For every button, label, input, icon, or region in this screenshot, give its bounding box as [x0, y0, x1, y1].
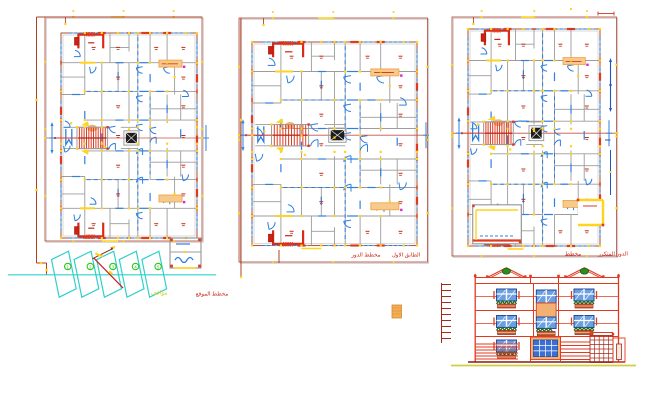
- floor plan 1 (ground floor) exterior masonry wall segments (brown): [61, 33, 197, 238]
- elevation: window row 1 left: [494, 289, 519, 308]
- floor plan 3 (typical floor) exterior walls: [468, 29, 600, 246]
- elevation: main entrance door (blue grid): [531, 337, 561, 360]
- elevation: red corner finials: [474, 275, 620, 278]
- floor plan 1 (ground floor) dimension marks around frame: [44, 10, 203, 242]
- plan 3 top dimension ticks: [570, 8, 614, 16]
- floor plan 2 (first floor) corridor blue dashed lines: [283, 46, 360, 241]
- floor plan 2 (first floor) dimension marks around frame: [238, 11, 429, 263]
- floor plan 3 (typical floor) staircase with red treads: [461, 116, 521, 151]
- floor plan 1 (ground floor) elevator shaft: [124, 131, 139, 145]
- parking slot 2: [74, 251, 99, 297]
- floor plan 1 (ground floor) red wall-end crossing marks: [61, 33, 197, 238]
- plan 3 bottom-left large room: [472, 205, 521, 244]
- parking slot number 2 (green circle): [87, 263, 93, 269]
- elevation: window row 2 right: [572, 316, 597, 335]
- floor plan 1 (ground floor) interior partition walls: [61, 33, 197, 238]
- elevation: base lines: [451, 362, 636, 366]
- floor plan 3 (typical floor) exterior masonry wall segments (brown): [468, 29, 600, 246]
- floor plan 1 (ground floor) border frame: [45, 17, 203, 242]
- plan 1 outer-left red boundary line: [35, 17, 202, 275]
- floor plan 2 (first floor) interior partition walls: [252, 42, 417, 246]
- parking slot 1: [52, 251, 77, 297]
- floor plan 3 (typical floor) interior partition walls: [468, 29, 600, 246]
- plan 3 right blue dimension line: [605, 58, 612, 140]
- svg-text:الطابق الاول: الطابق الاول: [392, 252, 421, 259]
- floor plan 2 (first floor) top-left red-walled room: [269, 41, 304, 72]
- floor plan 1 (ground floor) section cut line: [44, 137, 203, 139]
- floor plan 2 (first floor) blue dimension markers beside staircase: [240, 119, 429, 151]
- floor plan 1 (ground floor) yellow junction dots: [60, 32, 198, 239]
- svg-text:مخطط الدور: مخطط الدور: [350, 252, 380, 259]
- floor plan 2 (first floor) door swing arcs: [255, 58, 406, 229]
- floor plan 2 (first floor) exterior blue window strips: [252, 42, 417, 246]
- plan 3 bottom-right yellow utility block: [577, 199, 605, 227]
- parking slot 4: [119, 251, 144, 297]
- elevation: floor lines: [475, 284, 618, 337]
- floor plan 2 (first floor) red wall-end crossing marks: [252, 42, 417, 246]
- parking slot 3: [97, 251, 122, 297]
- floor plan 2 (first floor) bottom yellow dash: [302, 248, 322, 250]
- parking slot number 5 (green circle): [155, 263, 161, 269]
- floor plan 1 (ground floor) door swing arcs: [64, 50, 189, 221]
- floor plan 3 (typical floor) bottom-left red-walled room: [481, 215, 509, 248]
- legend orange block: [392, 305, 402, 318]
- parking slot number 1 (green circle): [65, 263, 71, 269]
- plan 3 right lower dimension marks: [610, 150, 612, 195]
- floor plan 1 (ground floor) exterior blue window strips: [61, 33, 197, 238]
- floor plan 1 (ground floor) blue dimension markers beside staircase: [49, 122, 209, 154]
- floor plan 3 (typical floor) dimension marks around frame: [451, 10, 618, 257]
- floor plan 1 (ground floor) interior blue door and window marks: [72, 63, 181, 209]
- svg-text:مواقف: مواقف: [150, 290, 167, 297]
- elevation: right gable roof with shrub: [564, 268, 604, 278]
- elevation: left dimension ladder: [442, 283, 452, 343]
- floor plan 3 (typical floor) blue dimension markers beside staircase: [456, 117, 612, 149]
- floor plan 3 (typical floor) yellow junction dots: [467, 28, 601, 247]
- elevation: window row 1 right: [572, 289, 597, 308]
- floor plan 3 (typical floor) border frame: [452, 17, 618, 257]
- floor plan 2 (first floor) interior blue door and window marks: [265, 72, 397, 217]
- floor plan 3 (typical floor) exterior blue window strips: [468, 29, 600, 246]
- floor plan 1 (ground floor) bottom yellow dash: [102, 240, 118, 242]
- floor plan 2 (first floor) bottom-left red-walled room: [269, 216, 304, 247]
- elevation: window row 2 left: [494, 316, 519, 335]
- elevation: mid columns: [531, 278, 615, 363]
- floor plan 1 (ground floor) tiny room labels: [92, 47, 186, 225]
- floor plan 3 (typical floor) top-left red-walled room: [481, 28, 509, 61]
- floor plan 3 (typical floor) tiny room labels: [498, 44, 589, 233]
- parking slot 5: [142, 251, 167, 297]
- elevation: ground floor stairs left: [475, 344, 518, 359]
- floor plan 2 (first floor) yellow junction dots: [251, 41, 418, 247]
- parking slot number 3 (green circle): [110, 263, 116, 269]
- floor plan 2 (first floor) section cut line: [238, 134, 429, 136]
- floor plan 1 (ground floor) corridor blue dashed lines: [87, 37, 150, 234]
- floor plan 1 (ground floor) bathroom fixtures (orange + magenta): [159, 60, 185, 203]
- elevation: right lattice screen: [590, 336, 613, 363]
- floor plan 2 (first floor) red wall ticks: [252, 42, 417, 246]
- floor plan 3 (typical floor) bottom yellow dash: [508, 248, 524, 250]
- svg-text:الدور المتكرر: الدور المتكرر: [597, 251, 628, 258]
- floor plan 2 (first floor) staircase with red treads: [245, 119, 318, 152]
- floor plan 3 (typical floor) corridor blue dashed lines: [493, 33, 554, 241]
- floor plan 2 (first floor) exterior masonry wall segments (brown): [252, 42, 417, 246]
- elevation: right small annex with door: [613, 338, 625, 362]
- plan 1 bottom-right extension room (WC): [170, 238, 201, 268]
- elevation: outer walls: [475, 274, 618, 362]
- floor plan 3 (typical floor) elevator shaft: [529, 126, 544, 141]
- parking slot 3 red access diagonal: [92, 246, 123, 288]
- floor plan 3 (typical floor) door swing arcs: [471, 48, 592, 227]
- floor plan 1 (ground floor) exterior walls: [61, 33, 197, 238]
- parking street line (cyan): [8, 274, 216, 276]
- elevation: left gable roof with shrub: [486, 268, 526, 278]
- plan 2 lower-left boundary drop line: [240, 18, 279, 278]
- svg-text:مخطط: مخطط: [565, 251, 581, 258]
- floor plan 3 (typical floor) red wall-end crossing marks: [468, 29, 600, 246]
- parking slot number 4 (green circle): [132, 263, 138, 269]
- floor plan 2 (first floor) border frame: [239, 18, 429, 263]
- floor plan 1 (ground floor) bottom-left red-walled room: [75, 208, 104, 239]
- svg-text:مخطط الموقع: مخطط الموقع: [196, 291, 229, 298]
- floor plan 3 (typical floor) red wall ticks: [468, 29, 600, 246]
- elevation: center bay stack: [534, 284, 559, 337]
- floor plan 2 (first floor) tiny room labels: [290, 56, 403, 233]
- elevation: ground window left: [494, 340, 519, 359]
- elevation: ground floor stairs right: [561, 342, 591, 360]
- floor plan 2 (first floor) elevator shaft: [329, 128, 346, 142]
- floor plan 2 (first floor) bathroom fixtures (orange + magenta): [371, 69, 403, 211]
- floor plan 1 (ground floor) top-left red-walled room: [75, 32, 104, 63]
- floor plan 3 (typical floor) bathroom fixtures (orange + magenta): [563, 58, 589, 210]
- floor plan 3 (typical floor) section cut line: [451, 132, 618, 134]
- floor plan 2 (first floor) exterior walls: [252, 42, 417, 246]
- floor plan 3 (typical floor) interior blue door and window marks: [479, 61, 585, 215]
- floor plan 1 (ground floor) red wall ticks: [61, 33, 197, 238]
- floor plan 1 (ground floor) staircase with red treads: [54, 121, 115, 155]
